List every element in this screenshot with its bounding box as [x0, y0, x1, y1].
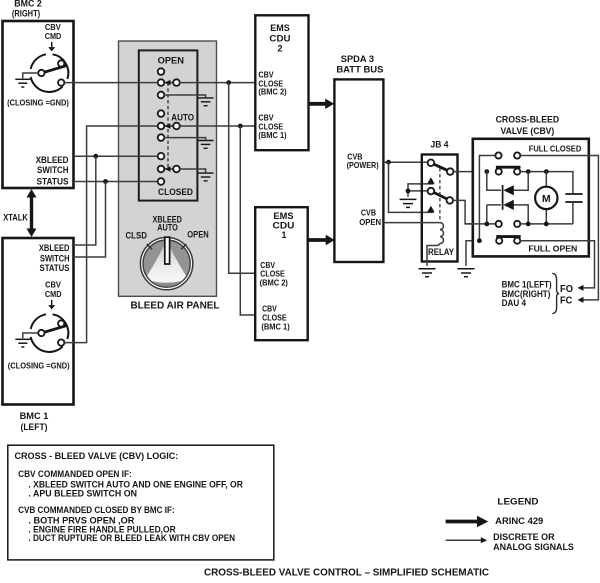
label FC [560, 296, 573, 307]
svg-text:CBV: CBV [260, 261, 275, 270]
svg-text:(RIGHT): (RIGHT) [12, 9, 40, 19]
wire CVB POWER branch to K1b lower throw [389, 162, 434, 212]
svg-text:(LEFT): (LEFT) [21, 422, 48, 432]
arrow CBV CMD into switch S2 [48, 42, 55, 52]
relay mechanical dashed link [439, 168, 441, 220]
svg-text:RELAY: RELAY [428, 247, 454, 257]
wire OPEN wiper to EMS CDU2 CBV CLOSE (BMC 2) [180, 82, 256, 84]
wire junction down to EMS CDU1 CBV CLOSE (BMC 2) [229, 83, 256, 274]
svg-text:XBLEED: XBLEED [39, 243, 70, 253]
node junctions row3 [484, 222, 548, 227]
svg-text:CLOSE: CLOSE [262, 313, 287, 322]
svg-text:CROSS - BLEED VALVE (CBV) LOGI: CROSS - BLEED VALVE (CBV) LOGIC: [15, 451, 179, 461]
svg-text:CBV: CBV [258, 71, 274, 80]
wire motor upper row [520, 172, 573, 194]
relay switch K1b [428, 188, 454, 204]
svg-text:FULL CLOSED: FULL CLOSED [529, 143, 582, 153]
box EMS CDU 2 [255, 15, 308, 150]
ground (CLOSED position) [198, 173, 214, 181]
svg-text:OPEN: OPEN [187, 230, 208, 240]
svg-text:FULL OPEN: FULL OPEN [528, 244, 577, 254]
label OPEN (knob right) [187, 230, 208, 240]
label CBV CMD (BMC1) [45, 280, 62, 299]
svg-text:(BMC 1): (BMC 1) [261, 322, 290, 331]
box CBV logic notes [8, 445, 274, 560]
svg-text:. APU BLEED SWITCH ON: . APU BLEED SWITCH ON [28, 488, 137, 498]
svg-text:BMC 2: BMC 2 [14, 0, 42, 9]
node junction at ground branch [406, 189, 411, 194]
contact CLOSED bottom [158, 178, 165, 185]
svg-text:LEGEND: LEGEND [497, 497, 538, 508]
svg-text:(BMC 2): (BMC 2) [260, 279, 289, 288]
contact OPEN top [158, 68, 165, 75]
wire junction down to EMS CDU1 CBV CLOSE (BMC 1) [240, 126, 255, 315]
label logic title [15, 451, 179, 461]
wire K1b to CBV motor lower row [453, 200, 496, 224]
XTALK double arrow [27, 189, 37, 237]
label FULL OPEN [528, 244, 577, 254]
ground (JB4 input side) [400, 199, 417, 207]
svg-text:(CLOSING =GND): (CLOSING =GND) [7, 98, 69, 108]
svg-text:CVB: CVB [347, 152, 362, 161]
node junction on CLOSED-top wire [93, 154, 98, 159]
wire S1 to ground [23, 333, 38, 338]
wire BMC2 STATUS to CLOSED bottom contact [74, 181, 158, 183]
label CROSS-BLEED VALVE (CBV) [496, 115, 560, 138]
wiper AUTO pair with arrow [158, 123, 180, 130]
rotary knob XBLEED selector [140, 237, 194, 292]
label XTALK [3, 213, 28, 223]
wire FO signal from full-open switch [520, 241, 594, 288]
label CLOSED (panel bottom) [158, 187, 193, 197]
svg-text:DISCRETE OR: DISCRETE OR [493, 532, 555, 542]
wire K1a to CBV motor upper row [454, 171, 496, 173]
svg-text:CMD: CMD [45, 31, 62, 41]
label CVB (POWER) [347, 152, 379, 170]
svg-text:CBV: CBV [258, 114, 274, 123]
label ARINC 429 [495, 515, 543, 526]
node junction on CVB POWER wire [386, 160, 391, 165]
relay coil K1 [427, 223, 444, 266]
wire AUTO wiper to EMS CDU2 CBV CLOSE (BMC 1) [180, 125, 256, 127]
contact OPEN bottom [158, 92, 165, 99]
svg-text:SWITCH: SWITCH [40, 253, 70, 263]
svg-text:AUTO: AUTO [157, 223, 178, 233]
rotary switch S2 (BMC2 CBV CMD) [31, 54, 69, 92]
svg-text:(CLOSING =GND): (CLOSING =GND) [8, 360, 70, 370]
label CBV CLOSE (BMC 2) in CDU1 [260, 261, 289, 288]
label XBLEED SWITCH STATUS (BMC1) [39, 243, 70, 273]
label OPEN (panel top) [158, 55, 184, 65]
label FULL CLOSED [529, 143, 582, 153]
label CVB OPEN [359, 208, 381, 226]
legend ARINC 429 arrow [446, 516, 489, 527]
ground (OPEN position) [198, 98, 214, 106]
svg-text:CROSS-BLEED VALVE CONTROL – SI: CROSS-BLEED VALVE CONTROL – SIMPLIFIED S… [204, 568, 489, 579]
label DISCRETE OR ANALOG SIGNALS [493, 532, 574, 552]
svg-text:(POWER): (POWER) [347, 161, 379, 170]
label EMS CDU 2 [269, 23, 290, 54]
node junction on CLOSED-bottom wire [103, 179, 108, 184]
svg-text:. DUCT RUPTURE OR BLEED LEAK W: . DUCT RUPTURE OR BLEED LEAK WITH CBV OP… [28, 533, 235, 543]
ground (CBV full-open switch) [458, 269, 475, 277]
svg-text:CLOSED: CLOSED [158, 187, 193, 197]
svg-text:CDU: CDU [273, 221, 295, 231]
ground (relay coil) [419, 269, 436, 277]
node junction rail to full-open row [477, 238, 482, 243]
svg-text:ARINC 429: ARINC 429 [495, 515, 543, 526]
wire FULL OPEN row to ground [466, 241, 496, 266]
contact AUTO bottom [158, 134, 165, 141]
wire ground branch to K1a lower throw and K1b pole [408, 184, 434, 197]
wire S2 to ground [23, 73, 38, 78]
label CBV CLOSE (BMC 2) in CDU2 [258, 71, 286, 97]
ARINC arrow EMS CDU1 to SPDA [308, 235, 335, 245]
arrow FO into DAU [578, 285, 584, 291]
wiper CLOSED pair with arrow [158, 166, 180, 173]
svg-text:XTALK: XTALK [3, 213, 28, 223]
ground (AUTO position) [198, 141, 214, 149]
label BMC/DAU listeners [502, 279, 552, 308]
box JB 4 [422, 155, 458, 262]
svg-text:FC: FC [560, 296, 573, 307]
wire ground rail (CBV left) [479, 156, 495, 241]
label CLSD [126, 230, 147, 240]
svg-text:CLSD: CLSD [126, 230, 147, 240]
svg-text:1: 1 [281, 230, 286, 240]
switch full-open (closed contact) [496, 237, 521, 244]
wire OPEN bottom to ground [164, 95, 206, 97]
label BMC 2 (RIGHT) [12, 0, 42, 19]
svg-text:BATT BUS: BATT BUS [336, 65, 383, 75]
label BMC 1 (LEFT) [20, 411, 49, 432]
box BMC2 [3, 21, 74, 188]
label (CLOSING =GND) BMC1 [8, 360, 70, 370]
switch motor-upper (closed contact) [496, 167, 521, 175]
svg-text:AUTO: AUTO [171, 113, 194, 123]
box CROSS-BLEED VALVE [473, 139, 589, 257]
svg-text:ANALOG SIGNALS: ANALOG SIGNALS [493, 542, 574, 552]
ground (BMC2 switch) [15, 79, 30, 87]
svg-text:SPDA 3: SPDA 3 [341, 54, 374, 64]
wire FC signal from full-closed switch [520, 156, 598, 300]
svg-text:CLOSE: CLOSE [260, 270, 285, 279]
svg-text:STATUS: STATUS [40, 263, 70, 273]
arrow CBV CMD into switch S1 [48, 300, 55, 310]
wire junction down to BMC1 XBLEED [74, 156, 96, 245]
label LEGEND [497, 497, 538, 508]
box SPDA 3 BATT BUS [334, 79, 383, 262]
label CVB closed conditions [18, 505, 235, 543]
wire CLOSED wiper to ground [180, 169, 206, 172]
arrow alternate throw K1a [427, 177, 434, 183]
wire BMC2 XBLEED status to CLOSED top contact [74, 155, 158, 157]
svg-text:2: 2 [277, 44, 282, 54]
legend discrete/analog arrow [446, 537, 488, 543]
svg-text:BMC 1: BMC 1 [20, 411, 49, 421]
bleed air panel inner contact box [139, 50, 198, 200]
svg-text:CBV: CBV [262, 304, 277, 313]
svg-text:EMS: EMS [270, 23, 290, 33]
node junction on AUTO wire [238, 124, 243, 129]
label CBV open conditions [18, 469, 243, 498]
label CBV CMD (BMC2) [45, 22, 62, 41]
node junctions row2 [484, 169, 548, 174]
wire AUTO bottom to ground [164, 138, 206, 140]
label (CLOSING =GND) BMC2 [7, 98, 69, 108]
contact CLOSED top [158, 153, 165, 160]
svg-text:CMD: CMD [45, 289, 62, 299]
wiper OPEN pair with arrow [158, 79, 180, 86]
svg-text:SWITCH: SWITCH [37, 165, 69, 175]
svg-text:JB 4: JB 4 [431, 140, 449, 150]
svg-text:EMS: EMS [273, 211, 293, 221]
diode D2 bypass [487, 200, 528, 224]
svg-text:(BMC 1): (BMC 1) [258, 131, 286, 140]
svg-text:CROSS-BLEED: CROSS-BLEED [496, 115, 560, 126]
label FO [560, 284, 573, 295]
wire BMC2 CBV CMD to OPEN wiper [64, 82, 157, 84]
switch motor-lower (open contact) [465, 221, 573, 227]
brace for listener group [552, 273, 559, 313]
svg-text:CBV COMMANDED OPEN IF:: CBV COMMANDED OPEN IF: [18, 469, 132, 479]
svg-text:FO: FO [560, 284, 573, 295]
svg-text:CVB COMMANDED CLOSED BY BMC IF: CVB COMMANDED CLOSED BY BMC IF: [18, 505, 175, 515]
ARINC arrow EMS CDU2 to SPDA [309, 99, 335, 109]
relay switch K1a [428, 160, 454, 175]
svg-text:OPEN: OPEN [359, 218, 381, 227]
label CBV CLOSE (BMC 1) in CDU1 [261, 304, 290, 331]
wire CVB POWER from SPDA to JB4 switch K1a [383, 161, 427, 163]
wire junction down to BMC1 SWITCH [74, 182, 106, 258]
wire CVB OPEN from SPDA to relay coil [383, 222, 440, 224]
contact AUTO top [158, 110, 165, 117]
svg-text:BLEED AIR PANEL: BLEED AIR PANEL [131, 301, 220, 312]
wire BMC1 CBV CMD to AUTO wiper [64, 126, 157, 343]
label AUTO (panel mid) [171, 113, 194, 123]
label EMS CDU 1 [273, 211, 295, 240]
label XBLEED AUTO knob [153, 215, 182, 233]
svg-text:XBLEED: XBLEED [36, 155, 69, 165]
svg-text:(BMC 2): (BMC 2) [258, 88, 286, 97]
svg-text:OPEN: OPEN [158, 55, 184, 65]
node junction on OPEN wire [226, 80, 231, 85]
svg-text:CDU: CDU [269, 33, 290, 43]
box EMS CDU 1 [255, 207, 308, 340]
box BMC1 [3, 238, 74, 405]
svg-text:CVB: CVB [361, 208, 376, 217]
label schematic title [204, 568, 489, 579]
capacitor C1 [565, 194, 582, 224]
label RELAY [428, 247, 454, 257]
switch full-closed (open contact) [495, 152, 520, 158]
motor M [535, 172, 557, 224]
rotary switch S1 (BMC1 CBV CMD) [31, 314, 69, 352]
svg-text:M: M [542, 193, 551, 205]
label SPDA 3 BATT BUS [336, 54, 383, 75]
bleed air panel gray body [119, 41, 217, 296]
svg-text:DAU 4: DAU 4 [502, 298, 526, 308]
svg-text:BMC 1(LEFT): BMC 1(LEFT) [502, 279, 552, 289]
arrow alternate throw K1b [427, 206, 434, 212]
label BLEED AIR PANEL [131, 301, 220, 312]
svg-text:STATUS: STATUS [37, 176, 69, 186]
svg-text:VALVE (CBV): VALVE (CBV) [501, 126, 555, 137]
label JB 4 [431, 140, 449, 150]
label XBLEED SWITCH STATUS (BMC2) [36, 155, 69, 187]
label CBV CLOSE (BMC 1) in CDU2 [258, 114, 286, 140]
mechanical linkage dashed line [167, 83, 169, 169]
ground (BMC1 switch) [15, 339, 30, 347]
diode D1 bypass [487, 172, 528, 210]
arrow FC into DAU [578, 297, 584, 303]
